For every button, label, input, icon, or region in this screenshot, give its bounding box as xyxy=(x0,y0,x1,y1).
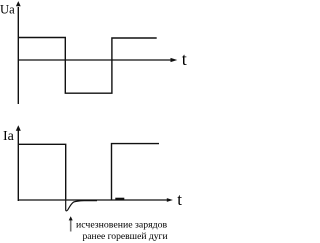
waveform Ia second pulse xyxy=(112,144,160,200)
axis t (bottom plot) horizontal xyxy=(18,199,168,201)
waveform Ia dip curve (extinction transient) xyxy=(66,199,97,211)
svg-text:t: t xyxy=(177,190,182,209)
waveform Ua square wave xyxy=(18,38,157,94)
svg-text:ранее горевшей дуги: ранее горевшей дуги xyxy=(83,231,168,242)
svg-text:Ua: Ua xyxy=(0,2,15,16)
svg-text:Ia: Ia xyxy=(3,129,15,144)
dash on axis after reignition xyxy=(115,198,124,200)
arrowhead t axis (bottom plot) xyxy=(167,198,173,202)
axis Ia vertical xyxy=(17,130,19,201)
arrowhead Ua axis top xyxy=(16,1,21,6)
svg-text:исчезновение зарядов: исчезновение зарядов xyxy=(76,219,168,230)
annotation arrow (pointing up to dip) xyxy=(70,220,72,232)
svg-text:t: t xyxy=(182,49,187,69)
waveform Ia first pulse xyxy=(18,144,66,199)
arrowhead Ia axis top xyxy=(16,125,21,131)
axis t (top plot) horizontal xyxy=(18,59,172,61)
arrowhead t axis (top plot) xyxy=(171,58,178,62)
axis Ua vertical xyxy=(17,7,19,104)
